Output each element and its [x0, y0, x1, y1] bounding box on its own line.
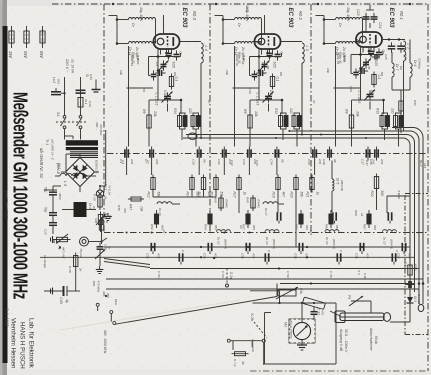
svg-text:220: 220 [289, 107, 293, 114]
svg-text:R67: R67 [363, 224, 367, 230]
svg-text:C29: C29 [44, 229, 48, 235]
svg-text:R9: R9 [345, 109, 349, 114]
svg-text:C 54: C 54 [286, 271, 290, 278]
svg-text:R6: R6 [173, 72, 177, 76]
svg-text:663: 663 [214, 225, 218, 230]
svg-text:R20: R20 [290, 192, 294, 198]
svg-text:2H: 2H [92, 205, 96, 211]
svg-text:470: 470 [321, 310, 325, 315]
svg-text:Dr 5: Dr 5 [336, 178, 340, 184]
svg-text:350V: 350V [58, 193, 62, 201]
svg-text:C15: C15 [307, 159, 311, 165]
svg-text:La 2: La 2 [52, 77, 56, 83]
svg-text:220: 220 [188, 107, 192, 114]
svg-text:EC 903: EC 903 [388, 8, 394, 29]
svg-text:Si: Si [85, 74, 89, 77]
svg-text:R19: R19 [272, 192, 276, 198]
svg-text:Bü 2: Bü 2 [419, 160, 423, 167]
svg-text:470: 470 [366, 253, 370, 258]
svg-text:B 44: B 44 [241, 58, 245, 65]
svg-text:400-: 400- [102, 291, 106, 297]
svg-text:C 52: C 52 [157, 271, 161, 278]
svg-text:No 2: No 2 [245, 5, 249, 12]
svg-text:10k: 10k [119, 70, 123, 75]
svg-text:Rö 1: Rö 1 [399, 11, 404, 20]
svg-text:Dr 10: Dr 10 [217, 237, 221, 245]
svg-text:7V 0,1A: 7V 0,1A [108, 185, 112, 195]
svg-text:C16: C16 [322, 159, 326, 165]
svg-text:470: 470 [252, 253, 256, 258]
svg-text:96: 96 [203, 159, 207, 163]
svg-text:47/443: 47/443 [225, 199, 229, 208]
svg-text:1n5: 1n5 [309, 230, 313, 235]
svg-text:56: 56 [160, 66, 164, 70]
svg-text:3. 1. 1962: 3. 1. 1962 [5, 308, 10, 327]
svg-text:10k: 10k [254, 111, 258, 117]
svg-text:56: 56 [367, 66, 371, 70]
svg-text:C7: C7 [146, 160, 150, 164]
svg-text:Dr 10: Dr 10 [325, 237, 329, 245]
svg-text:Dr 4: Dr 4 [413, 60, 417, 67]
svg-text:2k: 2k [104, 195, 108, 200]
svg-text:Si 1: Si 1 [84, 99, 88, 105]
svg-text:Gl 1: Gl 1 [57, 163, 61, 169]
svg-text:47: 47 [207, 100, 211, 104]
svg-text:96: 96 [280, 159, 284, 163]
svg-text:Röhr 33: Röhr 33 [336, 53, 340, 64]
svg-text:0,1: 0,1 [276, 77, 280, 82]
svg-text:C 53: C 53 [221, 271, 225, 278]
svg-text:R31: R31 [413, 100, 417, 106]
svg-text:B 45: B 45 [342, 56, 346, 63]
svg-text:680: 680 [106, 293, 110, 298]
svg-text:220 V ~: 220 V ~ [65, 58, 70, 73]
svg-text:C 37: C 37 [317, 308, 321, 315]
svg-text:3W: 3W [8, 51, 13, 59]
svg-text:663: 663 [373, 225, 377, 230]
svg-text:C26: C26 [404, 54, 408, 60]
svg-text:R61: R61 [325, 224, 329, 230]
svg-text:C40: C40 [59, 297, 63, 304]
svg-text:EC 903: EC 903 [181, 8, 187, 29]
svg-text:R47: R47 [129, 204, 133, 210]
svg-text:1n5: 1n5 [130, 159, 134, 164]
svg-text:10k: 10k [326, 68, 330, 73]
svg-text:R 28: R 28 [68, 266, 72, 273]
svg-text:C25: C25 [384, 54, 388, 60]
svg-text:P4a: P4a [299, 288, 303, 294]
svg-text:M1: M1 [284, 322, 288, 327]
svg-text:C51: C51 [355, 253, 359, 259]
svg-text:C23: C23 [356, 9, 360, 15]
svg-text:8W: 8W [39, 51, 44, 59]
svg-text:1k: 1k [243, 192, 247, 196]
svg-text:C10: C10 [192, 159, 196, 165]
svg-text:C19: C19 [248, 88, 252, 94]
svg-text:C12: C12 [217, 159, 221, 165]
svg-text:R22: R22 [370, 191, 374, 197]
svg-text:Dr 27: Dr 27 [264, 208, 268, 216]
svg-text:1k: 1k [316, 192, 320, 196]
svg-text:Meßsender GM 1000 300-1000 M: Meßsender GM 1000 300-1000 MHz [9, 92, 31, 299]
svg-text:R59: R59 [295, 224, 299, 230]
svg-text:10µ 4kW: 10µ 4kW [346, 7, 350, 22]
svg-text:300-: 300- [92, 281, 96, 287]
svg-text:C11: C11 [163, 90, 167, 96]
svg-text:C17: C17 [361, 159, 365, 165]
svg-text:40µA 3700Ω: 40µA 3700Ω [289, 320, 293, 339]
svg-text:Abschwächer: Abschwächer [369, 327, 373, 352]
svg-text:47/443: 47/443 [257, 199, 261, 208]
svg-text:HF-Regel: HF-Regel [43, 255, 47, 268]
svg-text:R10: R10 [274, 108, 278, 114]
svg-text:Dr 7: Dr 7 [395, 64, 399, 71]
svg-text:56k: 56k [300, 192, 304, 198]
svg-text:60: 60 [399, 66, 403, 70]
svg-text:C9: C9 [362, 62, 366, 66]
svg-text:470: 470 [157, 253, 161, 258]
svg-text:663: 663 [252, 225, 256, 230]
svg-text:643: 643 [57, 79, 61, 84]
svg-text:0,5A: 0,5A [89, 74, 93, 80]
svg-text:R54: R54 [204, 224, 208, 230]
svg-text:R12: R12 [147, 192, 151, 198]
svg-text:Rö 3: Rö 3 [192, 11, 197, 21]
svg-text:C51: C51 [241, 253, 245, 259]
svg-text:5/25: 5/25 [172, 62, 176, 69]
svg-text:4k7: 4k7 [282, 192, 286, 197]
svg-text:Rö 2: Rö 2 [298, 11, 303, 21]
svg-text:4n: 4n [108, 246, 112, 250]
svg-text:50 Ω ... 100m V: 50 Ω ... 100m V [344, 329, 348, 353]
svg-text:S/B: S/B [94, 218, 98, 223]
svg-text:MHz: MHz [114, 299, 118, 305]
svg-text:10µ 4kW: 10µ 4kW [139, 7, 143, 22]
svg-text:680 · 1000 MHz: 680 · 1000 MHz [103, 330, 107, 354]
svg-text:Gl 3: Gl 3 [413, 296, 417, 302]
svg-text:0 dB: 0 dB [363, 273, 367, 279]
svg-text:560: 560 [380, 191, 384, 197]
svg-text:R9: R9 [243, 109, 247, 114]
svg-text:Röhr 32: Röhr 32 [235, 55, 239, 66]
svg-text:Dr 8: Dr 8 [88, 203, 92, 209]
svg-text:213: 213 [423, 162, 427, 168]
svg-text:B 43: B 43 [136, 58, 140, 65]
svg-text:C11: C11 [269, 90, 273, 96]
svg-text:Gegentakt: Gegentakt [251, 339, 255, 352]
svg-text:C9: C9 [261, 62, 265, 66]
svg-text:1n5: 1n5 [380, 159, 384, 164]
svg-text:C11: C11 [370, 90, 374, 96]
svg-text:10k: 10k [225, 70, 229, 75]
svg-text:C38: C38 [104, 244, 108, 250]
svg-text:10k: 10k [356, 111, 360, 117]
svg-text:R 25: R 25 [93, 194, 97, 201]
svg-text:Dr 10: Dr 10 [383, 237, 387, 245]
svg-text:60 db: 60 db [374, 336, 378, 344]
svg-text:56k: 56k [220, 192, 224, 198]
svg-text:L 4: L 4 [204, 46, 208, 51]
svg-text:4k7 | 4W: 4k7 | 4W [62, 247, 66, 259]
svg-text:Ausgang 0 dB: Ausgang 0 dB [339, 328, 343, 352]
svg-text:1n5: 1n5 [155, 159, 159, 164]
svg-text:Tr 1: Tr 1 [45, 139, 49, 145]
svg-text:1n: 1n [239, 225, 243, 229]
svg-text:Dr 10: Dr 10 [265, 237, 269, 245]
svg-text:B250/C75: B250/C75 [95, 160, 99, 174]
svg-text:470 MHz: 470 MHz [97, 281, 101, 293]
svg-text:78 µms: 78 µms [79, 248, 83, 259]
svg-text:56k: 56k [157, 192, 161, 198]
svg-text:C51: C51 [397, 253, 401, 259]
svg-text:R60: R60 [354, 210, 358, 216]
svg-text:S1: S1 [56, 112, 61, 117]
svg-text:R51: R51 [150, 224, 154, 230]
svg-text:96: 96 [333, 159, 337, 163]
svg-text:R 7,2: R 7,2 [233, 359, 237, 367]
svg-text:(05/4-B): (05/4-B) [332, 239, 336, 249]
svg-text:10k: 10k [153, 111, 157, 117]
svg-text:5W: 5W [23, 51, 28, 59]
svg-text:HANS H PUSCH: HANS H PUSCH [19, 322, 26, 369]
svg-text:C24: C24 [378, 22, 382, 28]
svg-text:1k: 1k [360, 213, 364, 217]
svg-text:C4: C4 [121, 160, 125, 164]
svg-text:470 MHz: 470 MHz [99, 124, 103, 136]
svg-text:R6: R6 [279, 72, 283, 76]
svg-text:0,5A: 0,5A [88, 101, 92, 107]
svg-text:R10: R10 [173, 108, 177, 114]
svg-text:geprüft am 4.3.65: geprüft am 4.3.65 [5, 190, 9, 220]
svg-text:P4: P4 [57, 246, 61, 250]
svg-text:5/25: 5/25 [374, 60, 378, 67]
svg-text:470: 470 [408, 253, 412, 258]
svg-text:C13: C13 [242, 159, 246, 165]
svg-text:R21: R21 [306, 192, 310, 198]
svg-text:60W: 60W [413, 264, 417, 272]
svg-text:C51: C51 [294, 253, 298, 259]
svg-text:S 3: S 3 [357, 270, 361, 275]
svg-text:OA 150: OA 150 [417, 294, 421, 304]
svg-text:50µ: 50µ [44, 207, 48, 213]
svg-text:Lab. für Elektronik: Lab. für Elektronik [28, 318, 35, 369]
svg-text:(08/4-B): (08/4-B) [340, 180, 344, 191]
svg-text:R6: R6 [380, 72, 384, 76]
svg-text:C13: C13 [255, 160, 259, 166]
svg-text:2k: 2k [79, 267, 83, 272]
svg-text:L 3: L 3 [305, 46, 309, 52]
svg-text:C12: C12 [230, 160, 234, 166]
svg-text:S 2b: S 2b [250, 313, 255, 322]
svg-text:47k: 47k [123, 208, 127, 213]
svg-text:10k: 10k [140, 206, 144, 212]
svg-text:P5: P5 [347, 295, 351, 299]
svg-text:R45: R45 [117, 205, 121, 211]
svg-text:C14: C14 [269, 159, 273, 165]
svg-text:(05/4-B): (05/4-B) [224, 239, 228, 249]
svg-text:Röhr 31: Röhr 31 [130, 55, 134, 66]
svg-text:C 55: C 55 [329, 271, 333, 278]
svg-text:aW 2000 | A ~Z: aW 2000 | A ~Z [51, 139, 55, 160]
svg-text:C51: C51 [203, 253, 207, 259]
svg-text:0,1: 0,1 [175, 77, 179, 82]
svg-text:EC 903: EC 903 [287, 8, 293, 29]
svg-text:La 1: La 1 [104, 184, 108, 190]
svg-text:C17: C17 [365, 160, 369, 166]
svg-text:47: 47 [312, 100, 316, 104]
svg-text:300 ...: 300 ... [95, 122, 99, 131]
svg-text:ca. 16 VA: ca. 16 VA [71, 59, 75, 74]
svg-text:ab Gerät Nr. 51: ab Gerät Nr. 51 [39, 148, 44, 179]
svg-text:(05/4-B): (05/4-B) [272, 239, 276, 249]
svg-text:Viernheim Hessen: Viernheim Hessen [10, 318, 17, 369]
svg-text:2n5: 2n5 [318, 158, 322, 164]
svg-text:C6: C6 [142, 88, 146, 92]
svg-text:R10: R10 [376, 108, 380, 114]
svg-text:R17: R17 [233, 192, 237, 198]
svg-text:4 Watt: 4 Watt [397, 190, 401, 199]
svg-text:220: 220 [391, 107, 395, 114]
svg-text:663: 663 [305, 225, 309, 230]
svg-text:23 Wdg: 23 Wdg [418, 57, 422, 69]
svg-text:5/25: 5/25 [273, 62, 277, 69]
svg-text:(05/4-B): (05/4-B) [390, 239, 394, 249]
svg-text:4µ: 4µ [65, 299, 69, 303]
svg-text:S 2a: S 2a [229, 272, 233, 279]
svg-text:C51: C51 [146, 253, 150, 259]
svg-text:56: 56 [266, 66, 270, 70]
svg-text:R9: R9 [142, 109, 146, 114]
svg-text:C29: C29 [349, 86, 353, 92]
svg-text:C9: C9 [155, 62, 159, 66]
